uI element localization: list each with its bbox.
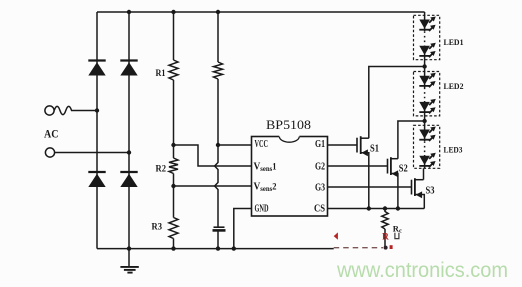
- svg-text:AC: AC: [44, 129, 59, 141]
- svg-text:GND: GND: [255, 203, 269, 214]
- svg-text:R: R: [382, 233, 389, 243]
- svg-text:LED2: LED2: [444, 81, 464, 91]
- svg-text:S2: S2: [399, 163, 408, 174]
- svg-text:Vsens1: Vsens1: [254, 162, 277, 174]
- svg-text:VCC: VCC: [255, 139, 269, 150]
- svg-text:R2: R2: [156, 165, 167, 175]
- svg-text:G2: G2: [315, 161, 325, 172]
- svg-text:Vsens2: Vsens2: [254, 182, 277, 194]
- svg-text:R3: R3: [152, 223, 163, 233]
- svg-text:G3: G3: [315, 182, 325, 193]
- svg-text:www.cntronics.com: www.cntronics.com: [336, 258, 508, 282]
- svg-text:LED1: LED1: [444, 37, 464, 47]
- svg-text:LED3: LED3: [444, 145, 463, 155]
- svg-text:CS: CS: [314, 203, 325, 214]
- svg-text:BP5108: BP5108: [266, 118, 311, 132]
- svg-text:S1: S1: [370, 143, 379, 154]
- svg-text:G1: G1: [315, 139, 325, 150]
- svg-text:R1: R1: [156, 69, 166, 79]
- svg-text:S3: S3: [426, 185, 435, 196]
